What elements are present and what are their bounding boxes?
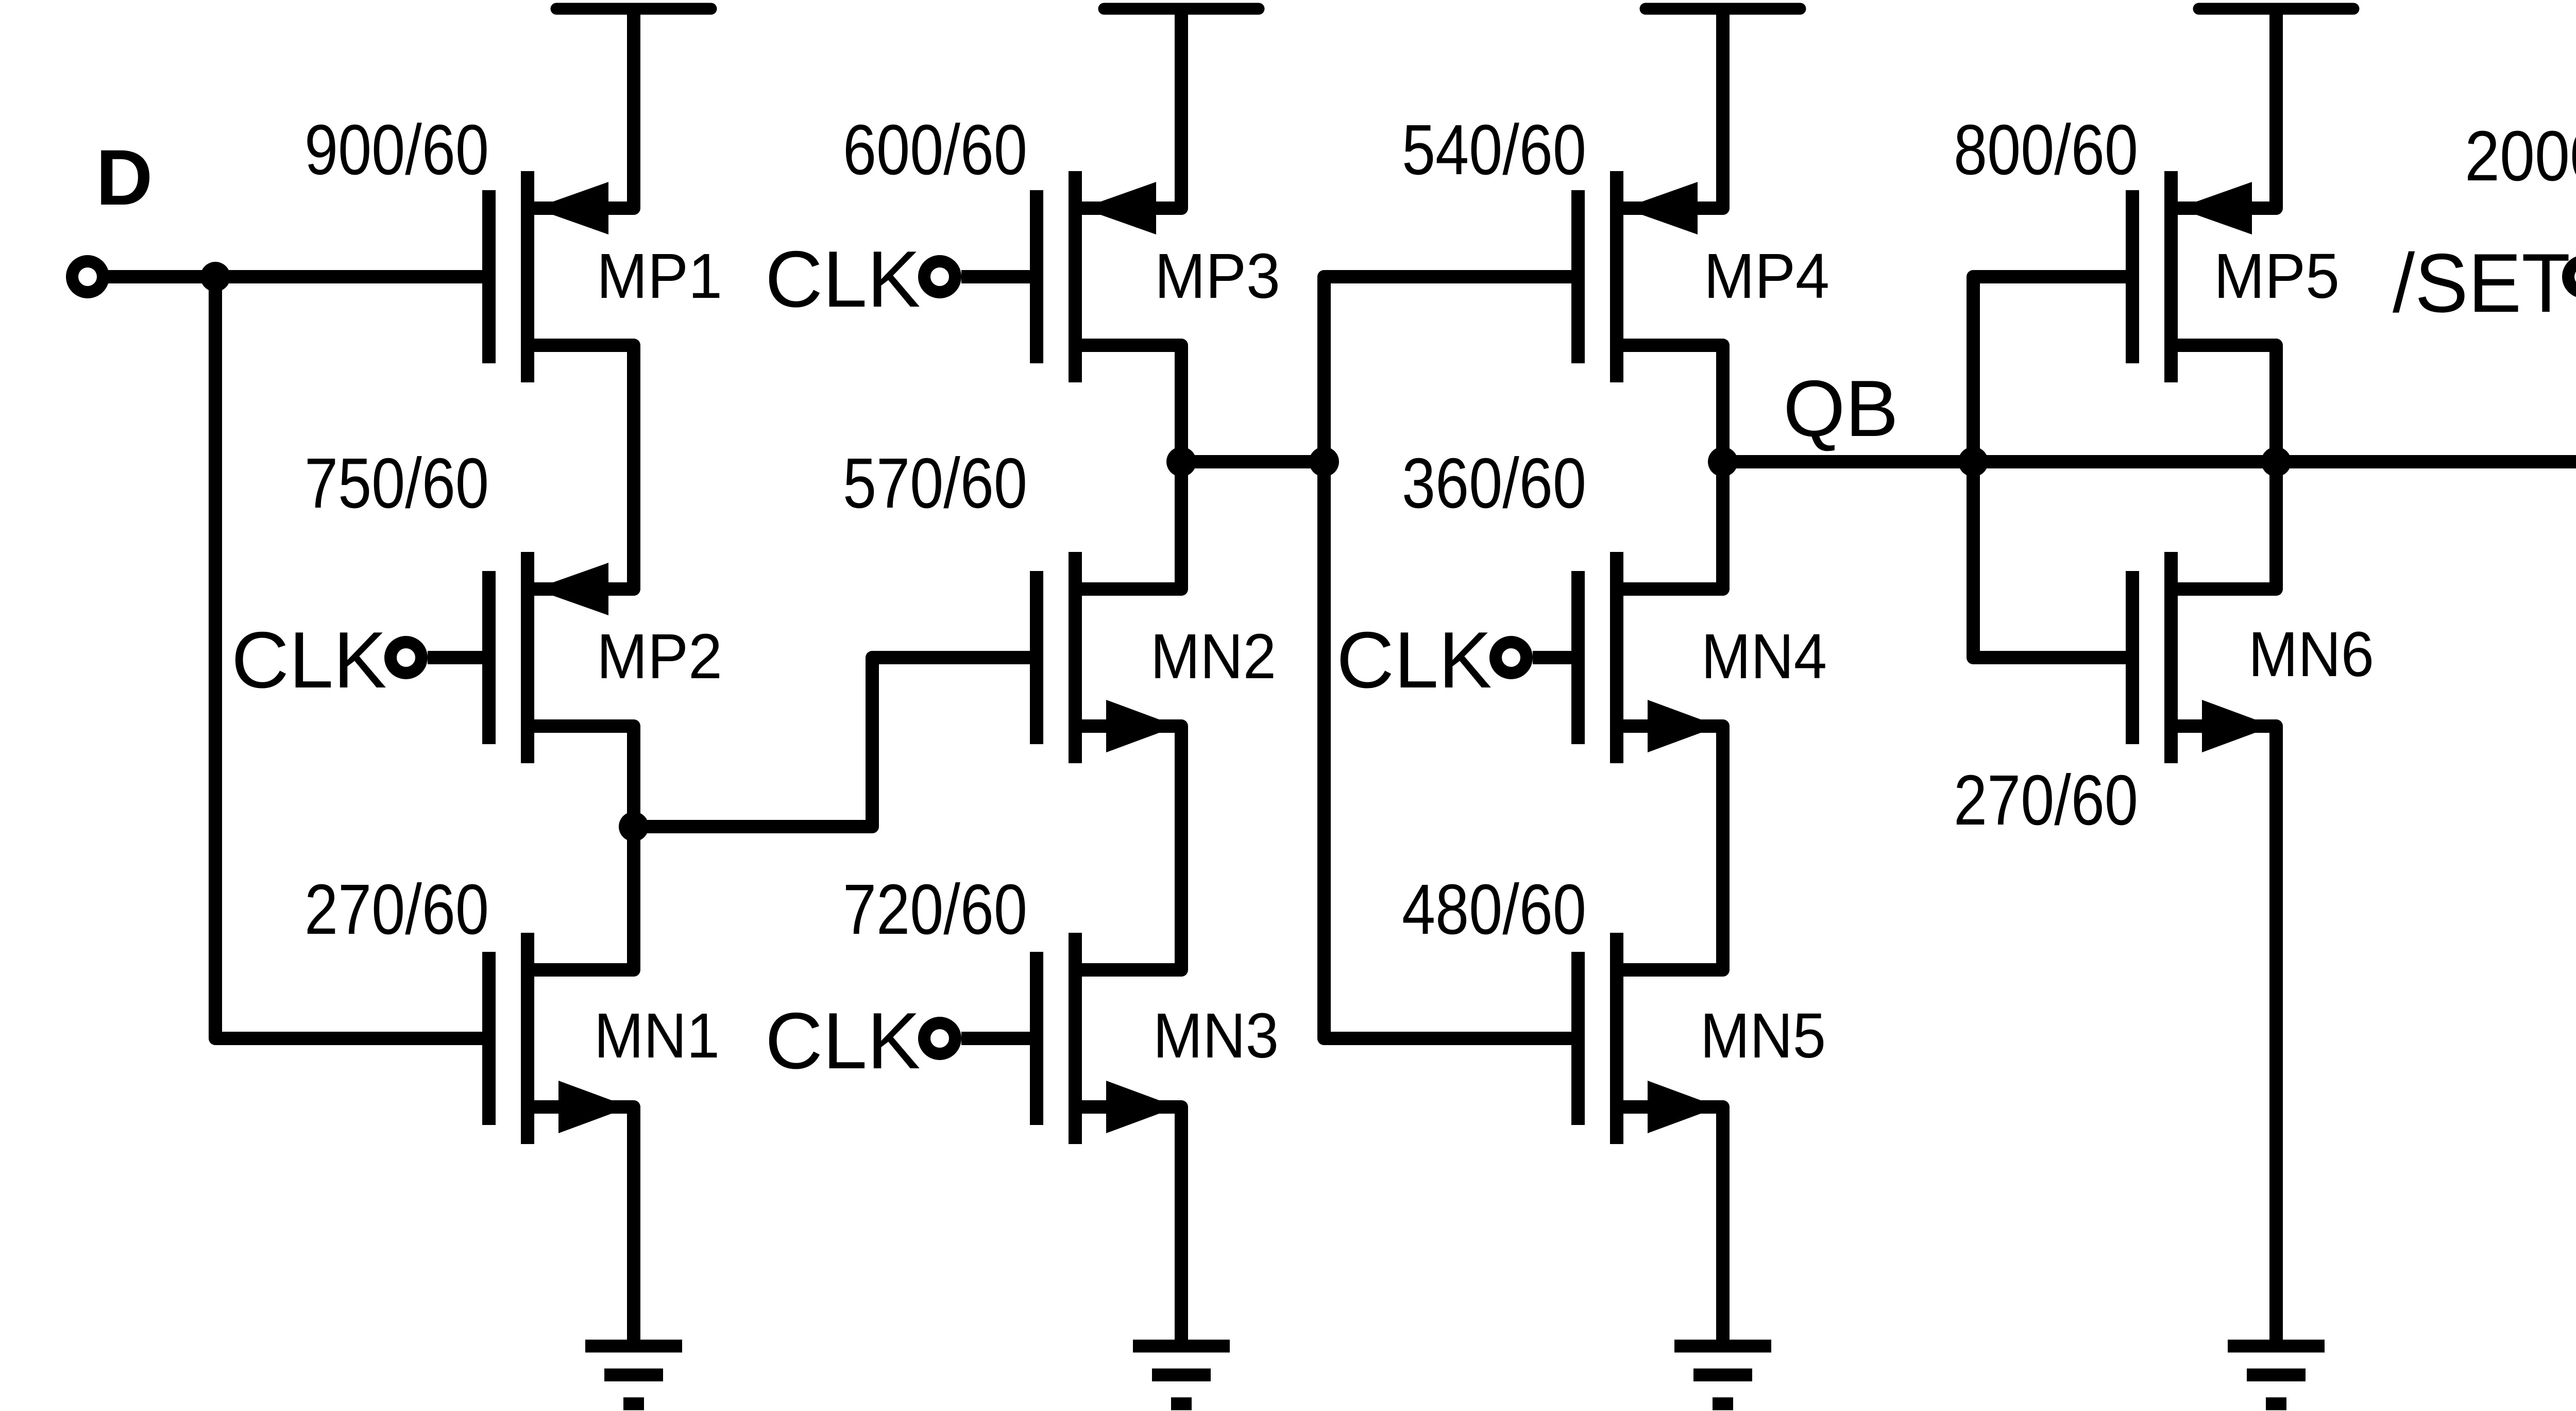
svg-text:MN3: MN3 [1153,1001,1279,1071]
svg-text:MP3: MP3 [1155,241,1280,312]
svg-text:MP4: MP4 [1704,241,1829,312]
svg-text:800/60: 800/60 [1954,110,2138,190]
svg-text:MN4: MN4 [1701,621,1827,692]
svg-text:CLK: CLK [1336,615,1492,704]
svg-text:720/60: 720/60 [843,870,1027,949]
svg-text:/SET: /SET [2393,237,2570,330]
svg-text:750/60: 750/60 [304,444,489,523]
svg-text:270/60: 270/60 [1954,761,2138,840]
svg-text:MN5: MN5 [1700,1001,1826,1071]
svg-text:600/60: 600/60 [843,110,1027,190]
svg-text:MN1: MN1 [594,1001,720,1071]
svg-text:MP1: MP1 [597,241,722,312]
svg-text:360/60: 360/60 [1402,444,1586,523]
svg-text:MN6: MN6 [2248,619,2374,690]
svg-text:2000/60: 2000/60 [2465,116,2576,196]
svg-text:CLK: CLK [765,234,921,324]
svg-text:570/60: 570/60 [843,444,1027,523]
svg-text:MN2: MN2 [1150,621,1276,692]
svg-text:540/60: 540/60 [1402,110,1586,190]
svg-text:QB: QB [1783,364,1899,453]
svg-text:MP5: MP5 [2214,241,2340,312]
svg-text:CLK: CLK [765,996,921,1085]
svg-text:MP2: MP2 [597,621,722,692]
svg-text:900/60: 900/60 [304,110,489,190]
svg-text:270/60: 270/60 [304,870,489,949]
svg-text:D: D [96,133,153,222]
svg-text:CLK: CLK [231,615,387,704]
svg-text:480/60: 480/60 [1402,870,1586,949]
